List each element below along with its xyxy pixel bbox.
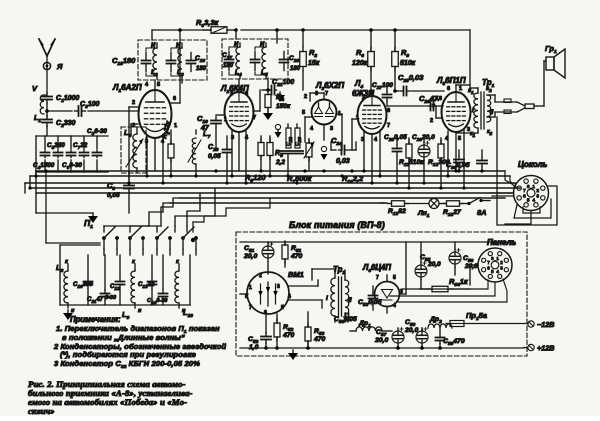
svg-text:Я: Я — [56, 62, 63, 71]
svg-text:7: 7 — [253, 115, 256, 121]
svg-text:0,05: 0,05 — [208, 153, 221, 160]
svg-text:0,03: 0,03 — [336, 158, 350, 165]
svg-text:в положении „Длинные волны”: в положении „Длинные волны” — [62, 333, 185, 342]
svg-text:4: 4 — [288, 294, 291, 300]
svg-text:7: 7 — [432, 104, 435, 110]
svg-text:C250,03: C250,03 — [398, 73, 424, 84]
svg-text:470: 470 — [290, 253, 303, 260]
svg-text:II: II — [490, 110, 494, 116]
svg-text:3,8: 3,8 — [435, 96, 442, 102]
svg-text:20,0: 20,0 — [404, 327, 418, 334]
svg-text:20,0: 20,0 — [374, 337, 388, 344]
svg-text:20,0: 20,0 — [427, 261, 441, 268]
svg-text:5: 5 — [393, 275, 396, 281]
svg-text:1: 1 — [356, 115, 359, 121]
svg-text:8А: 8А — [477, 208, 487, 217]
svg-text:6: 6 — [315, 91, 318, 97]
svg-text:Блок питания (ВП-8): Блок питания (ВП-8) — [289, 220, 385, 230]
svg-text:5: 5 — [458, 136, 461, 142]
svg-text:8: 8 — [245, 294, 248, 300]
svg-text:R5120: R5120 — [245, 173, 266, 184]
svg-text:3 Конденсатор С32 КБГИ 200-0,0: 3 Конденсатор С32 КБГИ 200-0,05 20% — [54, 359, 200, 370]
svg-text:Цоколь: Цоколь — [518, 160, 548, 169]
svg-text:180: 180 — [290, 66, 301, 72]
svg-text:120к: 120к — [352, 60, 368, 67]
svg-text:R541к: R541к — [449, 277, 469, 288]
svg-text:И: И — [260, 42, 265, 48]
svg-text:8-30: 8-30 — [105, 295, 116, 301]
svg-text:6: 6 — [245, 91, 248, 97]
svg-text:7: 7 — [387, 123, 390, 129]
svg-text:1: 1 — [224, 117, 227, 123]
svg-text:5: 5 — [527, 197, 530, 203]
svg-text:5: 5 — [281, 305, 284, 311]
svg-text:2,2: 2,2 — [275, 159, 285, 166]
svg-text:6: 6 — [387, 108, 390, 114]
svg-text:+12В: +12В — [537, 344, 554, 353]
svg-text:1: 1 — [249, 285, 252, 291]
svg-text:7: 7 — [376, 275, 379, 281]
svg-text:И: И — [176, 43, 181, 49]
svg-text:C15180: C15180 — [112, 56, 136, 67]
svg-text:2: 2 — [132, 100, 135, 106]
svg-text:1: 1 — [174, 123, 177, 129]
svg-text:7: 7 — [249, 305, 252, 311]
svg-text:R102,2: R102,2 — [342, 174, 364, 185]
svg-text:470: 470 — [282, 332, 295, 339]
svg-text:4: 4 — [532, 197, 535, 203]
svg-text:1: 1 — [459, 86, 462, 92]
svg-text:20,0: 20,0 — [464, 263, 478, 270]
svg-text:4: 4 — [393, 303, 396, 309]
svg-text:6: 6 — [447, 86, 450, 92]
svg-text:II: II — [348, 297, 352, 304]
svg-text:180: 180 — [196, 66, 207, 72]
svg-text:6: 6 — [173, 96, 176, 102]
svg-text:3: 3 — [277, 284, 280, 290]
svg-text:2: 2 — [536, 188, 539, 194]
svg-text:−12В: −12В — [537, 320, 554, 329]
svg-text:7: 7 — [523, 188, 526, 194]
svg-text:2: 2 — [304, 94, 307, 100]
svg-text:Л36Х2П: Л36Х2П — [315, 81, 344, 92]
svg-text:20,0: 20,0 — [243, 253, 257, 260]
svg-text:сквич»: сквич» — [28, 406, 55, 416]
svg-text:Л16А2П: Л16А2П — [112, 83, 142, 94]
svg-text:150к: 150к — [276, 103, 291, 110]
svg-text:5: 5 — [157, 82, 160, 88]
svg-text:ВМ1: ВМ1 — [288, 270, 304, 279]
svg-text:И: И — [151, 43, 156, 49]
svg-text:470: 470 — [313, 336, 326, 343]
svg-text:2: 2 — [230, 91, 233, 97]
svg-text:5: 5 — [302, 110, 305, 116]
svg-text:6: 6 — [523, 194, 526, 200]
svg-text:15к: 15к — [308, 60, 320, 67]
svg-text:I: I — [326, 295, 328, 302]
svg-text:R7500к: R7500к — [287, 174, 313, 185]
svg-text:3: 3 — [330, 126, 333, 132]
svg-text:510к: 510к — [400, 60, 416, 67]
svg-text:2: 2 — [362, 95, 365, 101]
svg-text:2: 2 — [430, 118, 433, 124]
svg-text:И: И — [234, 42, 239, 48]
svg-text:R33,3к: R33,3к — [196, 18, 220, 29]
svg-text:3: 3 — [536, 194, 539, 200]
svg-text:180: 180 — [223, 63, 234, 69]
svg-text:Примечания:: Примечания: — [70, 315, 121, 324]
svg-text:Л66Ц4П: Л66Ц4П — [362, 263, 391, 274]
svg-text:2: 2 — [259, 273, 262, 279]
svg-text:7: 7 — [325, 91, 328, 97]
svg-text:(*), подбираются при регулиров: (*), подбираются при регулировке — [60, 350, 197, 359]
